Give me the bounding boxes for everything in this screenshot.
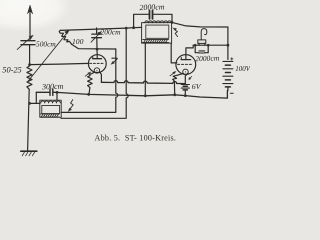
tube V1 (detector triode) [88,55,106,74]
tube V2 (AF amplifier triode) [176,55,196,75]
wire resistor to ground [28,89,30,150]
wire bus2 (common return rail) [36,91,227,98]
wire V2 drop from rail A to coil box, hop at bus2 [61,28,128,118]
rheostat R3 (filament V1) [85,72,92,94]
svg-text:2000cm: 2000cm [139,2,165,12]
node battery on bus2 [184,94,187,97]
wire filament right lead V1 to bus1 [100,72,102,82]
svg-text:6V: 6V [192,82,202,91]
node phones tap [227,44,230,47]
capacitor C5 2000cm (blocking) [150,11,153,19]
wire top rail A [60,27,141,30]
capacitor C1 500cm (variable, antenna series) [17,35,35,49]
wire antenna column [29,45,31,65]
node secondary return on bus2 [144,94,147,97]
wire V2 plate lead [186,45,193,55]
wire stub bus2 to coil L1 [56,92,58,100]
polarity arrow mark [189,77,192,80]
paper background [0,0,250,161]
svg-text:300cm: 300cm [41,82,64,92]
capacitor C4 2000cm (across phones) [195,45,208,53]
wire V1 plate drop (to tickler) with hop at bus2 [61,49,118,112]
resistor R1 50-25 [27,66,32,89]
wire 300cm branch bend [35,92,37,103]
wire phones node rail [193,44,228,46]
node rail A junction 2 [132,26,135,29]
node rheostat2 on bus2 [173,93,176,96]
node rail A junction 1 [125,27,128,30]
coupling arrow (transformer) [173,28,178,37]
node transformer top corner [171,21,174,24]
wire filament left lead V1 [90,72,95,75]
node bus2 coil stub [56,91,59,94]
battery B1 6V [181,85,189,96]
headphones P [198,29,207,46]
wire grid cap to tube V1 [96,49,98,55]
svg-text:100V: 100V [235,65,250,73]
wire bus1 (filament + rail, with hops) [101,81,185,84]
resistor R2 100 (hook + zigzag from rail A) [59,30,71,44]
node rheostat to bus2 [87,93,90,96]
rheostat R4 (filament V2) [170,71,177,94]
node left column junction [28,102,31,105]
plug/connector on plate drop [111,58,117,64]
wire V2 grid lead from transformer [171,43,177,63]
node phones right [207,44,210,47]
capacitor C2 200cm (variable) [91,28,102,49]
antenna [27,5,32,40]
wire grid circuit to V1 [72,44,116,49]
capacitor C3 300cm [50,89,53,95]
potentiometer arrow (long wiper through R2) [28,30,70,82]
svg-text:Abb. 5. ST- 100-Kreis.: Abb. 5. ST- 100-Kreis. [95,134,177,143]
transformer T1 box [142,21,172,43]
battery B2 100V [223,58,233,93]
light scan patch top-left [0,0,72,32]
wire filament left lead V2 [177,73,183,75]
svg-text:500cm: 500cm [36,40,56,49]
wire plate supply top rail to battery [172,22,228,59]
coil box L1/L2 (tuning + tickler) [40,100,61,117]
ground [21,151,37,156]
svg-text:50-25: 50-25 [2,65,21,74]
node grid junction [28,63,31,66]
node phones left [194,44,197,47]
svg-text:200cm: 200cm [101,28,122,37]
svg-text:100: 100 [72,37,84,46]
svg-text:2000cm: 2000cm [195,53,220,63]
wire tuned-circuit link [30,102,40,104]
wire transformer secondary return to bus2 [144,43,146,96]
wire filament right lead V2 to battery [185,73,188,83]
wire rail B riser and top link [134,14,172,27]
node cap junction [96,48,99,51]
coupling arrow (tickler adjust) [68,100,73,112]
wire grid lead to tube V1 [30,63,89,64]
